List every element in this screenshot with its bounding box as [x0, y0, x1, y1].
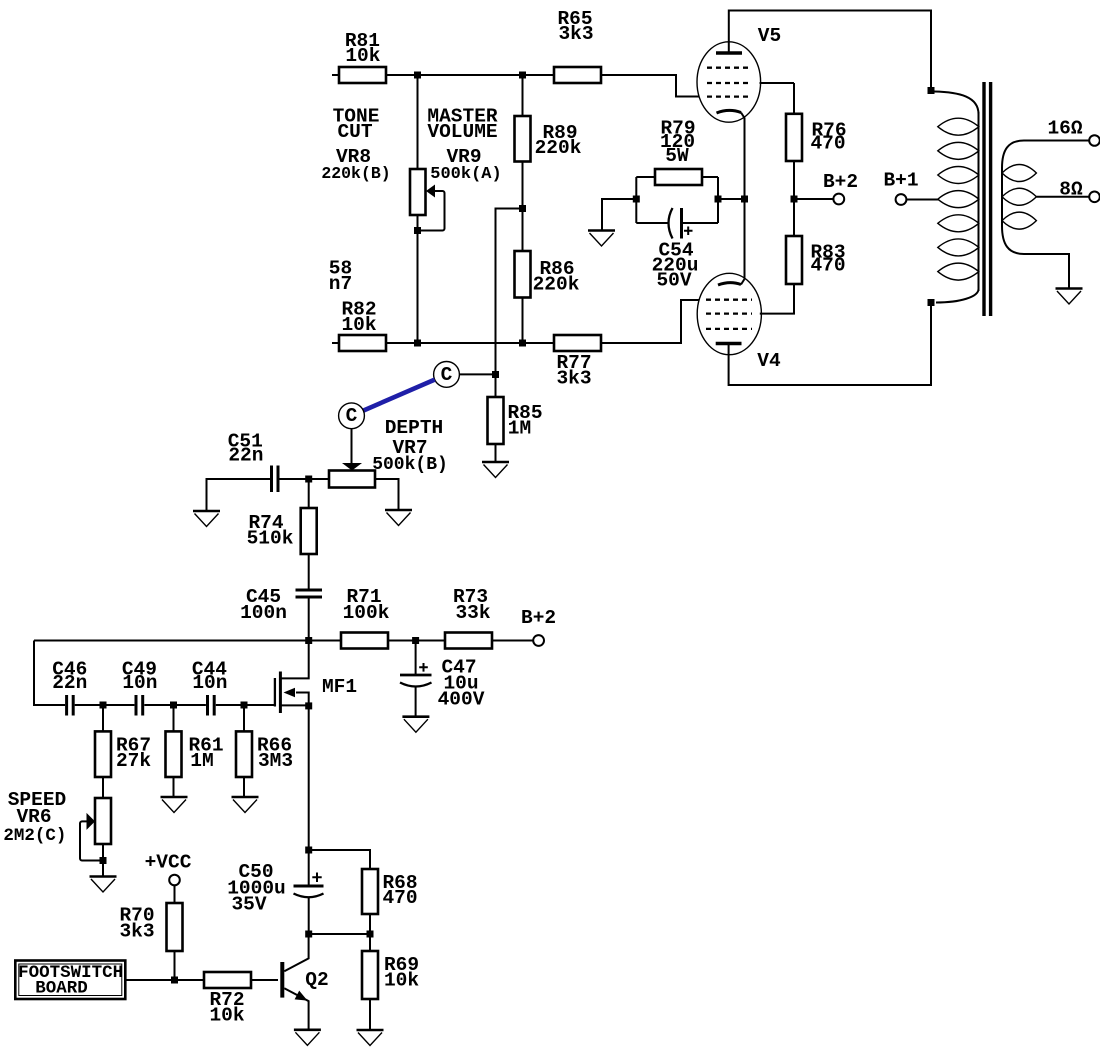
svg-text:10k: 10k: [209, 1005, 244, 1027]
svg-text:510k: 510k: [247, 528, 294, 550]
svg-text:220k: 220k: [533, 274, 580, 296]
svg-text:B+1: B+1: [883, 170, 918, 192]
svg-text:VOLUME: VOLUME: [427, 121, 497, 143]
ground: [385, 510, 412, 526]
resistor R83: [786, 236, 846, 284]
svg-text:C: C: [346, 405, 358, 427]
ground: [482, 462, 509, 478]
wire left feedback loop: [34, 641, 65, 706]
transformer secondary winding: [1002, 165, 1036, 230]
svg-text:35V: 35V: [231, 894, 266, 916]
resistor R74: [247, 479, 317, 590]
label 58n7: [329, 258, 352, 296]
resistor R73: [445, 586, 533, 649]
svg-text:100n: 100n: [240, 602, 287, 624]
wire lower rail: [386, 342, 554, 344]
node B+2 feed: [521, 607, 556, 646]
mosfet MF1: [275, 641, 357, 714]
svg-text:1M: 1M: [508, 418, 531, 440]
tube V4: [697, 273, 781, 372]
svg-text:22n: 22n: [228, 444, 263, 466]
resistor R65: [554, 8, 601, 83]
svg-text:VR6: VR6: [16, 806, 51, 828]
junction: [519, 340, 526, 347]
capacitor C45: [240, 586, 322, 641]
svg-text:220k: 220k: [535, 137, 582, 159]
svg-text:10k: 10k: [384, 970, 419, 992]
cable link C-C: [363, 380, 434, 411]
junction: [519, 205, 526, 212]
resistor R67: [95, 705, 151, 798]
svg-text:33k: 33k: [455, 602, 490, 624]
svg-text:V4: V4: [757, 350, 781, 372]
potentiometer VR6 speed: [3, 789, 111, 876]
wire R65 to V5 grid: [601, 75, 699, 97]
capacitor C50: [227, 861, 323, 934]
node B+2: [794, 171, 858, 204]
wire to cathode node: [718, 198, 745, 200]
junction: [367, 931, 374, 938]
wire emitter rail: [309, 933, 370, 935]
svg-text:500k(B): 500k(B): [372, 455, 448, 475]
wire parallel left: [635, 177, 637, 223]
resistor R68: [362, 869, 418, 934]
wire secondary to ground: [1002, 226, 1069, 288]
svg-text:50V: 50V: [656, 270, 691, 292]
svg-text:470: 470: [382, 887, 417, 909]
wire footswitch to R72: [125, 979, 204, 981]
resistor R71: [341, 586, 445, 649]
junction: [305, 847, 312, 854]
junction: [414, 72, 421, 79]
junction: [633, 196, 640, 203]
svg-text:500k(A): 500k(A): [430, 165, 501, 184]
resistor R77: [554, 335, 601, 390]
svg-text:V5: V5: [758, 25, 781, 47]
resistor R89: [515, 75, 582, 251]
svg-text:27k: 27k: [116, 750, 151, 772]
capacitor C49: [122, 659, 206, 716]
svg-text:10n: 10n: [122, 672, 157, 694]
capacitor C46: [52, 659, 134, 716]
wire depth wiper rail: [279, 478, 329, 480]
svg-text:3k3: 3k3: [556, 368, 591, 390]
resistor R61: [166, 705, 224, 797]
svg-text:10k: 10k: [341, 314, 376, 336]
junction: [791, 196, 798, 203]
resistor R82: [332, 299, 386, 352]
ground: [193, 511, 220, 527]
junction: [414, 227, 421, 234]
svg-text:10n: 10n: [192, 672, 227, 694]
resistor R76: [786, 83, 847, 236]
resistor R70: [119, 903, 182, 980]
node 8 ohm: [1036, 179, 1099, 203]
resistor R86: [515, 251, 580, 343]
junction: [241, 702, 248, 709]
wire to depth takeoff: [496, 209, 523, 375]
junction: [305, 476, 312, 483]
resistor R66: [236, 705, 293, 797]
transistor Q2: [282, 934, 328, 1029]
transformer core: [984, 82, 991, 316]
ground: [161, 797, 188, 813]
svg-text:100k: 100k: [343, 602, 390, 624]
svg-text:BOARD: BOARD: [35, 979, 88, 999]
capacitor C47: [400, 641, 485, 717]
svg-text:3k3: 3k3: [119, 921, 154, 943]
wire V5 cathode: [741, 113, 745, 280]
wire R77 to V4 grid: [601, 300, 699, 343]
junction: [928, 87, 935, 94]
label MASTER VOLUME: [427, 106, 501, 185]
junction: [305, 702, 312, 709]
svg-text:22n: 22n: [52, 672, 87, 694]
capacitor C44: [192, 659, 274, 716]
resistor R69: [362, 934, 419, 1030]
svg-text:16Ω: 16Ω: [1047, 118, 1082, 140]
potentiometer VR9: [410, 75, 445, 343]
junction: [100, 857, 107, 864]
wire V4 plate to transformer: [729, 303, 931, 386]
svg-text:470: 470: [810, 255, 845, 277]
junction: [170, 702, 177, 709]
junction: [741, 196, 748, 203]
wire V4 cathode: [741, 279, 745, 285]
svg-text:1M: 1M: [190, 750, 213, 772]
svg-text:B+2: B+2: [521, 607, 556, 629]
svg-text:10k: 10k: [345, 45, 380, 67]
ground: [588, 231, 615, 247]
potentiometer VR7 depth: [329, 417, 448, 510]
wire V5 screen to R76: [760, 82, 795, 84]
capacitor C51: [207, 430, 279, 510]
svg-text:Q2: Q2: [305, 969, 328, 991]
node +VCC: [145, 852, 192, 904]
svg-text:400V: 400V: [438, 689, 485, 711]
svg-text:8Ω: 8Ω: [1059, 179, 1083, 201]
label TONE CUT: [321, 106, 390, 184]
junction: [412, 637, 419, 644]
svg-text:CUT: CUT: [337, 121, 372, 143]
connector C upper: [434, 362, 492, 388]
wire to ground: [602, 199, 636, 230]
svg-text:220k(B): 220k(B): [321, 164, 390, 183]
junction: [519, 72, 526, 79]
node B+1: [883, 170, 939, 205]
junction: [492, 371, 499, 378]
ground: [232, 797, 259, 813]
wire V4 screen to R83: [760, 284, 794, 314]
svg-text:3k3: 3k3: [558, 23, 593, 45]
ground: [294, 1030, 321, 1046]
svg-text:2M2(C): 2M2(C): [3, 826, 66, 846]
svg-text:+VCC: +VCC: [145, 852, 192, 874]
junction: [171, 977, 178, 984]
resistor R72: [204, 972, 278, 1027]
svg-text:DEPTH: DEPTH: [385, 417, 444, 439]
wire main node rail: [34, 640, 341, 642]
resistor R79: [636, 118, 718, 186]
ground: [357, 1030, 384, 1046]
tube V5: [697, 25, 781, 122]
connector C lower: [339, 403, 365, 463]
svg-text:5W: 5W: [665, 145, 689, 167]
svg-text:n7: n7: [329, 273, 352, 295]
transformer primary winding: [934, 92, 979, 303]
ground: [90, 877, 117, 893]
resistor R81: [332, 30, 386, 83]
wire to R68: [309, 850, 370, 869]
junction: [305, 637, 312, 644]
wire parallel right: [717, 177, 719, 223]
junction: [100, 702, 107, 709]
footswitch board block: [15, 961, 125, 1000]
svg-text:470: 470: [810, 133, 845, 155]
junction: [414, 340, 421, 347]
resistor R85: [488, 375, 543, 462]
node 16 ohm: [1002, 118, 1100, 169]
junction: [928, 299, 935, 306]
wire source column: [308, 706, 310, 885]
junction: [305, 931, 312, 938]
ground: [402, 717, 429, 733]
junction: [715, 196, 722, 203]
svg-text:C: C: [441, 364, 453, 386]
wire top rail: [386, 74, 554, 76]
svg-text:MF1: MF1: [322, 676, 357, 698]
svg-text:3M3: 3M3: [258, 750, 293, 772]
wire V5 plate to transformer: [729, 11, 931, 92]
capacitor C54: [636, 208, 718, 292]
ground: [1056, 289, 1083, 305]
svg-text:B+2: B+2: [823, 171, 858, 193]
